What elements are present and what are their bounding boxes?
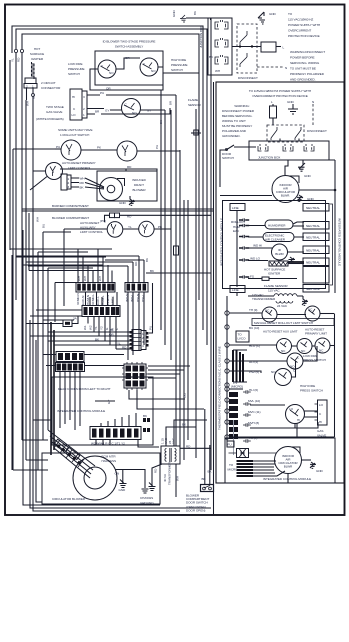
svg-text:GAS VALVE: GAS VALVE xyxy=(46,110,62,114)
svg-text:PRESS SWITCH: PRESS SWITCH xyxy=(300,389,323,393)
node L1 wire down to junction box xyxy=(210,18,212,20)
door switch label xyxy=(186,494,209,513)
svg-text:FLAME: FLAME xyxy=(188,98,198,102)
svg-text:SURFACE: SURFACE xyxy=(30,52,44,56)
svg-text:YL: YL xyxy=(11,58,15,62)
auto-reset primary limit control label xyxy=(62,161,96,170)
svg-text:IND HI: IND HI xyxy=(253,244,262,248)
svg-text:TO 115VAC/1Ø/60 HZ POWER SUPPL: TO 115VAC/1Ø/60 HZ POWER SUPPLY WITH xyxy=(249,89,311,93)
transformer labels xyxy=(161,437,176,485)
junction box outline xyxy=(208,18,232,75)
terminal strip 1 pin names xyxy=(76,293,115,305)
ICM box xyxy=(52,377,153,445)
svg-text:PU: PU xyxy=(183,393,187,397)
pin micro xyxy=(225,381,243,389)
svg-text:GAS: GAS xyxy=(317,429,323,433)
wire flame sensor down xyxy=(195,140,197,458)
svg-text:DISCONNECT POWER: DISCONNECT POWER xyxy=(222,109,255,113)
svg-text:IGNITER: IGNITER xyxy=(31,57,44,61)
svg-text:BU: BU xyxy=(42,224,46,228)
svg-text:24 VAC: 24 VAC xyxy=(277,304,288,308)
rung IND HI xyxy=(248,244,272,249)
wire RD down center xyxy=(111,224,112,226)
svg-text:BLWR: BLWR xyxy=(284,465,293,469)
disconnect dashed box ladder xyxy=(267,125,304,142)
pin TH (9) xyxy=(225,308,262,315)
12 pin connector rows xyxy=(56,352,84,362)
wire GY left xyxy=(95,400,115,402)
terminal strip 2 xyxy=(82,306,120,317)
pin RLI (4) xyxy=(225,359,287,364)
5 rung ladder connector xyxy=(130,330,149,351)
jbox plug B xyxy=(283,144,293,151)
12 pin connector row2 xyxy=(56,363,85,372)
fuse on L rail xyxy=(270,104,277,125)
left bundle wire 6 xyxy=(32,96,34,420)
svg-text:POLARIZED AND: POLARIZED AND xyxy=(222,129,247,133)
svg-text:DRAFT: DRAFT xyxy=(134,183,144,187)
svg-text:AUTO-RESET AUX LIMIT: AUTO-RESET AUX LIMIT xyxy=(263,330,298,334)
wire bundle v8 xyxy=(198,56,200,300)
wire BR gas valve LO xyxy=(87,108,170,114)
svg-text:GROUNDED.: GROUNDED. xyxy=(222,134,241,138)
wire BK to door switch right xyxy=(208,445,213,485)
LINE box bottom xyxy=(230,286,245,293)
wires WH RD BK to id blower xyxy=(71,177,104,190)
svg-text:WH: WH xyxy=(98,276,102,281)
svg-text:115 VAC: 115 VAC xyxy=(268,289,280,293)
svg-text:HIGH FIRE: HIGH FIRE xyxy=(300,384,315,388)
svg-text:W2: W2 xyxy=(89,325,93,330)
black connector column lower xyxy=(229,392,238,439)
disconnect switches inside xyxy=(271,127,301,140)
svg-text:INTEGRATED CONTROL MODULE: INTEGRATED CONTROL MODULE xyxy=(220,218,224,266)
flame sensor xyxy=(188,98,202,140)
wires ECM block bottom to right xyxy=(129,390,204,409)
primary limit circle ladder xyxy=(312,338,334,353)
svg-text:GY: GY xyxy=(107,400,111,404)
fuse element box with X xyxy=(229,449,277,458)
svg-text:XFMR-L: XFMR-L xyxy=(91,294,95,305)
wire run y266 xyxy=(29,213,103,271)
pin circle RD xyxy=(20,49,23,52)
svg-text:1 ROLLOUT SWITCH: 1 ROLLOUT SWITCH xyxy=(60,133,89,137)
junction box plug 2 xyxy=(215,38,228,47)
svg-text:WARNING:: WARNING: xyxy=(234,104,249,108)
svg-text:INTEGRATED CONTROL MODULE: INTEGRATED CONTROL MODULE xyxy=(57,409,105,413)
svg-text:115 VAC/1Ø/60 HZ: 115 VAC/1Ø/60 HZ xyxy=(288,18,313,22)
svg-text:HIGH FIRE: HIGH FIRE xyxy=(171,58,186,62)
wire horizontal y262 xyxy=(26,261,112,263)
compartment divider wall xyxy=(22,209,214,211)
induced draft blower box xyxy=(97,171,157,201)
svg-text:(MICRO): (MICRO) xyxy=(231,385,243,389)
svg-text:WH: WH xyxy=(36,217,40,222)
svg-text:INDUCED: INDUCED xyxy=(132,178,146,182)
wire OR xyxy=(30,333,132,337)
rung ROLLOUT label xyxy=(231,220,245,233)
svg-text:LINE: LINE xyxy=(232,206,239,210)
ICM bottom box xyxy=(225,438,335,483)
svg-text:TO UNIT MUST BE: TO UNIT MUST BE xyxy=(290,67,316,71)
ID BLWR circle xyxy=(272,244,305,260)
wire bundle v6 xyxy=(183,200,185,460)
circulator blower motor xyxy=(73,456,117,500)
wire bundle v3 xyxy=(170,110,172,360)
wire neutral dashed to N xyxy=(257,66,287,70)
wire labels above strip1 xyxy=(77,276,102,281)
svg-text:TRANSFORMER: TRANSFORMER xyxy=(168,461,172,485)
gas valve aux switch circle xyxy=(87,99,165,118)
svg-text:NO: NO xyxy=(151,69,156,73)
low fire press switch circle xyxy=(287,346,317,369)
svg-text:MVC (11): MVC (11) xyxy=(248,410,261,414)
pressure switch assembly box xyxy=(95,51,163,85)
left rail inside ICM xyxy=(236,211,238,287)
svg-text:HI: HI xyxy=(72,95,75,99)
svg-text:HI: HI xyxy=(297,418,300,422)
svg-text:DISCONNECT: DISCONNECT xyxy=(238,76,258,80)
pin TR (7) xyxy=(225,314,335,441)
svg-text:JUNCTION BOX: JUNCTION BOX xyxy=(258,156,280,160)
blower door switch xyxy=(201,485,214,492)
wires transformer top xyxy=(166,420,207,446)
wire BK to door switch left xyxy=(202,409,207,485)
svg-text:AUTO-RESET PRIMARY: AUTO-RESET PRIMARY xyxy=(62,161,96,165)
svg-text:BL: BL xyxy=(110,328,114,332)
wire jbox to blower xyxy=(285,160,288,175)
svg-text:THERMOSTAT FIELD CONNECTIONS: THERMOSTAT FIELD CONNECTIONS N.E.C. CLAS… xyxy=(218,346,222,430)
small parts right of ICM xyxy=(143,428,150,432)
junction box plug 3 xyxy=(215,55,228,64)
svg-text:LO: LO xyxy=(319,403,324,407)
transformer secondary ground xyxy=(149,464,163,491)
ground at ID BLWR xyxy=(289,257,296,264)
indoor blower circle (bottom) xyxy=(275,447,312,474)
svg-text:BLOWER: BLOWER xyxy=(132,188,146,192)
aux limit circle ladder 1 xyxy=(277,339,292,354)
svg-text:NO: NO xyxy=(271,370,276,374)
igniter neutral heavy wire xyxy=(288,261,304,263)
svg-text:YL: YL xyxy=(117,342,121,346)
svg-text:2 CIRCUIT: 2 CIRCUIT xyxy=(41,81,56,85)
jbox plug C xyxy=(304,144,314,151)
node dot disconnect in xyxy=(239,45,241,47)
wire run y310 xyxy=(36,309,82,311)
svg-text:PRESSURE: PRESSURE xyxy=(171,63,188,67)
wire from left to ICM xyxy=(13,420,52,470)
fuse box to L xyxy=(261,42,285,52)
strip2 pin names xyxy=(83,325,119,330)
wire WH transformer bottom xyxy=(176,464,180,497)
svg-text:PU: PU xyxy=(149,326,153,330)
svg-text:MVL (10): MVL (10) xyxy=(248,399,260,403)
node junction dot right rail xyxy=(334,189,337,192)
svg-text:CHASSIS: CHASSIS xyxy=(140,496,153,500)
FU box xyxy=(227,441,234,447)
wire bundle v9 xyxy=(202,62,204,330)
wire jbox to disconnect xyxy=(232,46,261,48)
40va transformer xyxy=(161,446,180,464)
hot surface igniter xyxy=(30,47,44,79)
2 circuit connector xyxy=(24,78,61,100)
NEUTRAL box 1 xyxy=(303,204,329,212)
svg-text:NEUTRAL: NEUTRAL xyxy=(306,261,320,265)
NEUTRAL box 5 xyxy=(303,258,329,266)
svg-text:NO: NO xyxy=(109,71,114,75)
rollout switch 1 xyxy=(55,140,117,160)
manual reset rollout underline box xyxy=(252,319,334,326)
svg-text:(PU): (PU) xyxy=(100,219,106,223)
svg-text:TH (9): TH (9) xyxy=(249,308,257,312)
svg-text:GY: GY xyxy=(147,109,151,113)
gas valve box (ladder) xyxy=(315,400,328,425)
svg-text:GND: GND xyxy=(304,174,312,178)
svg-text:ID BLOWER TWO-STAGE PRESSURE: ID BLOWER TWO-STAGE PRESSURE xyxy=(103,40,156,44)
svg-text:WARNING:DISCONNECT: WARNING:DISCONNECT xyxy=(290,50,325,54)
junction box plug 1 xyxy=(215,20,228,29)
auto reset primary limit label xyxy=(305,328,327,336)
wire WH top run xyxy=(16,29,207,62)
svg-text:AUTO-RESET: AUTO-RESET xyxy=(80,221,99,225)
svg-text:OVERCURRENT: OVERCURRENT xyxy=(288,29,311,33)
wire mid rail across xyxy=(220,190,335,196)
wires bars to blower xyxy=(253,461,285,476)
wire stubs below tstat strip xyxy=(96,440,110,445)
wire YL low xyxy=(54,342,132,346)
svg-text:LIMIT CONTROL: LIMIT CONTROL xyxy=(80,230,103,234)
svg-text:GY: GY xyxy=(105,109,109,113)
svg-text:WH: WH xyxy=(176,476,180,481)
nested wire corners bottom left xyxy=(23,230,160,505)
heavy wire pair bottom xyxy=(50,322,52,455)
wire bundle v10 xyxy=(206,62,208,345)
wires into right connector xyxy=(16,256,144,266)
wire BK low xyxy=(48,338,132,342)
chassis ground label xyxy=(140,496,154,505)
wire PU strip to connector xyxy=(149,283,153,333)
NEUTRAL box 3 xyxy=(303,233,329,241)
indoor air circulator blower (ladder top) xyxy=(272,176,299,203)
svg-text:MVH (8): MVH (8) xyxy=(248,421,259,425)
svg-text:EAC: EAC xyxy=(233,229,240,233)
svg-text:GND: GND xyxy=(119,488,127,492)
svg-text:PRESSURE: PRESSURE xyxy=(68,67,85,71)
rung IND LO xyxy=(248,257,268,261)
ground right of blower xyxy=(297,195,315,201)
wire run y316 xyxy=(30,315,82,317)
wire bundle v11 xyxy=(210,18,212,470)
svg-text:BLOWER COMPARTMENT: BLOWER COMPARTMENT xyxy=(52,216,89,220)
svg-text:GND: GND xyxy=(119,201,127,205)
pin BU (10) xyxy=(225,325,259,330)
induced draft blower label xyxy=(132,178,146,192)
svg-text:HOT: HOT xyxy=(34,47,41,51)
svg-text:TO: TO xyxy=(288,12,293,16)
svg-text:AIR CLEANER: AIR CLEANER xyxy=(265,238,286,242)
svg-text:YL: YL xyxy=(128,225,132,229)
wires 12pin to ECM block xyxy=(84,355,124,366)
svg-text:HLI (6): HLI (6) xyxy=(249,388,258,392)
left bundle wire 1 xyxy=(9,60,11,250)
svg-text:SWITCH: SWITCH xyxy=(171,68,183,72)
black bar stack xyxy=(237,460,254,477)
svg-text:LO: LO xyxy=(289,407,294,411)
left bundle wire 8 xyxy=(43,232,71,440)
two stage gas valve xyxy=(70,89,87,120)
power supply note xyxy=(288,12,320,38)
grey service line xyxy=(233,420,235,455)
ground bottom right xyxy=(310,462,324,473)
svg-text:TWO STAGE: TWO STAGE xyxy=(46,105,64,109)
thick harness bundle ladder xyxy=(233,350,247,382)
wire N dashed xyxy=(312,104,314,126)
wire GN top run xyxy=(22,34,199,56)
left bundle wire 9 xyxy=(48,268,93,430)
wire strip1 feeder xyxy=(55,283,76,323)
svg-text:BURNER COMPARTMENT: BURNER COMPARTMENT xyxy=(52,204,89,208)
svg-text:EAC-N: EAC-N xyxy=(81,296,85,305)
LINE box top xyxy=(230,204,245,211)
svg-text:SERVICING. WIRING: SERVICING. WIRING xyxy=(290,61,320,65)
wire drops to strip1 xyxy=(78,249,112,283)
svg-text:INTEGRATED CONTROL MODULE: INTEGRATED CONTROL MODULE xyxy=(338,218,342,266)
pin MVC (11) xyxy=(225,409,261,414)
svg-text:LVCO: LVCO xyxy=(238,337,247,341)
svg-text:FU: FU xyxy=(228,443,232,447)
left bundle wire 3 xyxy=(15,53,17,300)
svg-text:WH: WH xyxy=(80,177,85,181)
svg-text:40 VA: 40 VA xyxy=(163,473,167,482)
wires bottom ladder connect xyxy=(287,474,289,484)
wire bundle v7 xyxy=(187,200,189,440)
svg-text:INTEGRATED CONTROL MODULE: INTEGRATED CONTROL MODULE xyxy=(263,477,311,481)
ladder header note xyxy=(249,89,311,98)
svg-text:DOOR OPEN): DOOR OPEN) xyxy=(186,509,205,513)
left bundle wire 6b xyxy=(11,255,13,470)
svg-text:DOOR SWITCH: DOOR SWITCH xyxy=(186,501,208,505)
wire left rail from door switch xyxy=(220,150,222,187)
svg-text:(WHITE RODGERS): (WHITE RODGERS) xyxy=(36,117,64,121)
svg-text:NEUTRAL: NEUTRAL xyxy=(306,224,320,228)
rollout switch 2 xyxy=(117,141,180,161)
harness connector ticks xyxy=(55,439,82,465)
left bundle wire 2 xyxy=(13,149,55,470)
hot surface igniter (ladder) xyxy=(264,261,304,276)
svg-text:XFMR-N: XFMR-N xyxy=(76,293,80,305)
svg-text:GND: GND xyxy=(287,100,295,104)
svg-text:Y2: Y2 xyxy=(100,326,104,330)
svg-text:MUST BE PROPERLY: MUST BE PROPERLY xyxy=(222,124,252,128)
disconnect dashed box xyxy=(237,24,257,73)
svg-text:GN: GN xyxy=(115,472,120,476)
ground symbol (service) xyxy=(258,12,277,24)
ground ECM motor xyxy=(115,470,127,493)
svg-text:IGNITER: IGNITER xyxy=(268,272,281,276)
wire PU gas valve HI xyxy=(87,91,176,95)
low fire pressure switch label xyxy=(68,62,85,76)
disconnect switch symbol lower xyxy=(240,53,247,67)
wires out of strip2 bottom xyxy=(88,316,116,349)
neutral column bracket xyxy=(330,204,333,285)
pressure switch assembly title xyxy=(103,40,156,49)
svg-text:BLWR: BLWR xyxy=(275,252,284,256)
NEUTRAL box 6 xyxy=(303,285,329,293)
svg-text:GND: GND xyxy=(172,9,176,17)
connector pins column lower xyxy=(243,390,251,443)
wire OR lower xyxy=(90,69,199,91)
wires down into tstat strip xyxy=(92,413,136,432)
svg-text:BU (10): BU (10) xyxy=(249,326,259,330)
left bundle wire 5 xyxy=(25,100,27,460)
diagonal harness bundle xyxy=(48,430,95,478)
inline fuse on v4 xyxy=(174,246,179,255)
svg-text:LINE: LINE xyxy=(232,288,239,292)
svg-text:PRIMARY LIMIT: PRIMARY LIMIT xyxy=(305,332,327,336)
aux limit switch 1 xyxy=(64,222,139,238)
warning note xyxy=(290,50,325,82)
svg-text:WIRING TO UNIT: WIRING TO UNIT xyxy=(222,119,246,123)
NEUTRAL box 2 xyxy=(303,222,329,230)
svg-text:AND GROUNDED.: AND GROUNDED. xyxy=(290,78,316,82)
svg-text:PROPERLY POLARIZED: PROPERLY POLARIZED xyxy=(290,72,325,76)
wire tstat to transformer xyxy=(138,440,159,447)
ground symbol ladder top xyxy=(288,104,298,114)
page border xyxy=(5,5,345,516)
svg-text:CONNECTOR: CONNECTOR xyxy=(41,86,61,90)
high fire press switch circle (ladder) xyxy=(271,361,296,386)
right rail wire xyxy=(329,160,335,293)
primary limit control xyxy=(30,163,63,191)
svg-text:PU: PU xyxy=(100,91,104,95)
svg-text:FS: FS xyxy=(250,275,254,279)
ECM 9 pin connector xyxy=(122,362,148,390)
wires 12pin row2 drops to harness xyxy=(60,372,80,430)
ladder panel border xyxy=(216,82,344,483)
ground GND (top center) xyxy=(172,9,211,22)
wires connector col down from strip1 right block xyxy=(128,292,144,360)
disconnect switch symbol upper xyxy=(240,31,247,45)
wire aux fuse to strip2 xyxy=(63,229,65,306)
svg-text:WH: WH xyxy=(83,276,87,281)
pin circle YL xyxy=(14,49,17,52)
left diagram right boundary xyxy=(213,82,215,514)
svg-text:Y1: Y1 xyxy=(94,326,98,330)
ground below junction box xyxy=(298,160,312,178)
ground transformer ladder xyxy=(302,296,308,305)
svg-text:NEUTRAL: NEUTRAL xyxy=(306,206,320,210)
high fire pressure switch circle (assembly) xyxy=(140,58,158,76)
pin HLI (6) xyxy=(225,387,258,392)
wire bundle v2 xyxy=(164,110,166,345)
svg-text:LOW FIRE: LOW FIRE xyxy=(68,62,82,66)
connector block right of strip1 xyxy=(125,283,148,303)
svg-text:PROTECTION DEVICE: PROTECTION DEVICE xyxy=(288,34,320,38)
svg-text:DISCONNECT: DISCONNECT xyxy=(307,129,327,133)
blank box right column xyxy=(303,267,329,284)
ICM upper box xyxy=(223,201,326,289)
svg-text:SWITCH: SWITCH xyxy=(222,156,234,160)
gas valve switch circle xyxy=(286,405,305,424)
wire BK mid horizontal xyxy=(146,269,211,273)
wire run y271 xyxy=(102,271,104,283)
svg-text:NEUTRAL: NEUTRAL xyxy=(306,249,320,253)
svg-text:W1: W1 xyxy=(83,325,87,330)
svg-text:SWITCH: SWITCH xyxy=(68,72,80,76)
HUMIDIFIER oval xyxy=(248,220,304,229)
wires ECM block right side xyxy=(148,366,190,378)
svg-text:READ CODES FROM LEFT TO RIGHT: READ CODES FROM LEFT TO RIGHT xyxy=(58,387,111,391)
